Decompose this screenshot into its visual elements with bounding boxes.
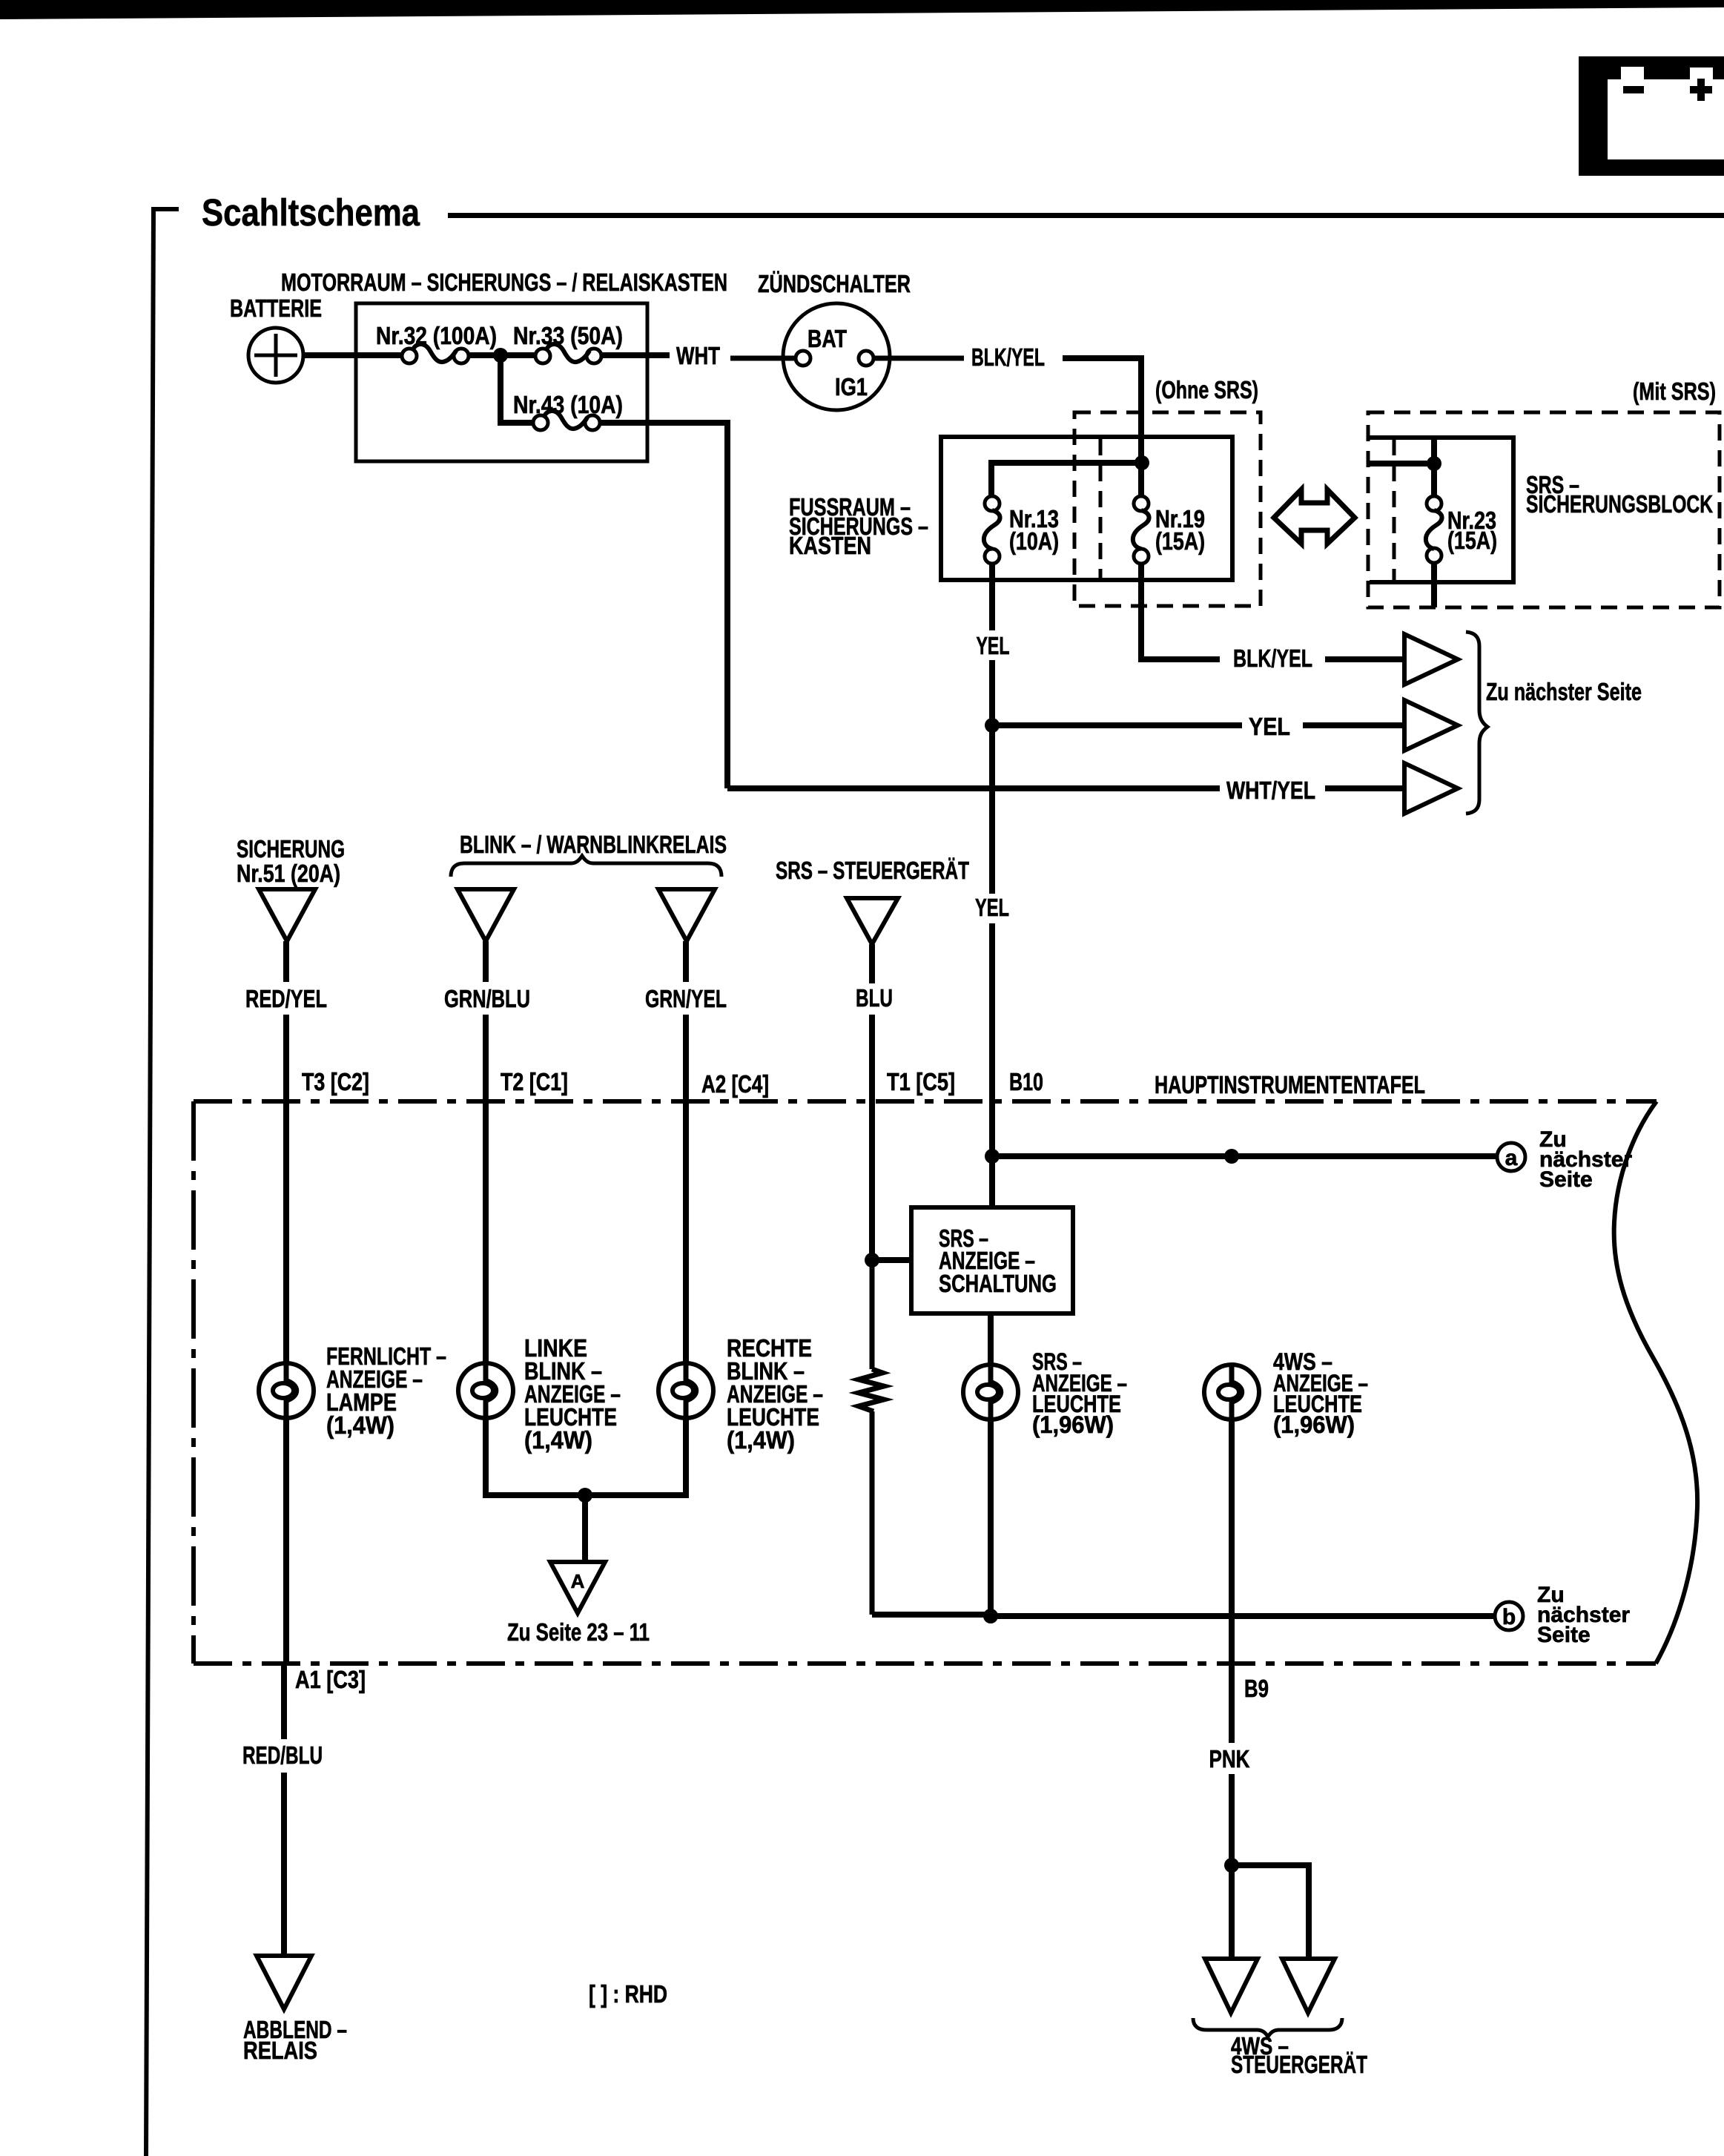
svg-text:STEUERGERÄT: STEUERGERÄT — [1231, 2051, 1367, 2078]
svg-text:BLINK – / WARNBLINKRELAIS: BLINK – / WARNBLINKRELAIS — [460, 831, 727, 858]
battery pictogram (top-right corner) — [1579, 56, 1724, 176]
svg-text:KASTEN: KASTEN — [789, 532, 871, 559]
fuse Nr.33 (50A) — [535, 344, 601, 363]
svg-text:BLK/YEL: BLK/YEL — [971, 343, 1045, 371]
wire RED/BLU down to relay — [281, 1773, 287, 1956]
wire to arrow 1 — [1325, 656, 1404, 662]
connector triangle 4WS left — [1205, 1959, 1258, 2013]
wire GRN/YEL down to panel — [683, 1015, 689, 1363]
brace under 4WS triangles — [1193, 2018, 1342, 2037]
svg-text:ZÜNDSCHALTER: ZÜNDSCHALTER — [758, 270, 911, 297]
arrow to next page (YEL) — [1404, 700, 1458, 751]
wire blink lamps join — [486, 1418, 686, 1495]
svg-text:YEL: YEL — [975, 894, 1009, 921]
svg-text:SRS – STEUERGERÄT: SRS – STEUERGERÄT — [776, 857, 969, 884]
svg-text:PNK: PNK — [1209, 1745, 1250, 1773]
svg-text:RED/YEL: RED/YEL — [245, 985, 327, 1012]
title rule line — [448, 213, 1724, 218]
label SRS-SICHERUNGSBLOCK — [1526, 471, 1713, 518]
arrow to next page (BLK/YEL) — [1404, 634, 1458, 685]
svg-text:BLU: BLU — [856, 984, 893, 1012]
svg-text:SICHERUNG: SICHERUNG — [237, 835, 345, 863]
label FUSSRAUM-SICHERUNGS-KASTEN — [789, 493, 928, 559]
equivalence double arrow — [1274, 489, 1355, 544]
wire fuse33 to WHT — [601, 352, 670, 358]
junction node 4WS split — [1224, 1858, 1239, 1873]
svg-text:BATTERIE: BATTERIE — [230, 294, 322, 322]
svg-text:MOTORRAUM – SICHERUNGS – / REL: MOTORRAUM – SICHERUNGS – / RELAISKASTEN — [281, 268, 727, 296]
lamp LINKE BLINK-ANZEIGE-LEUCHTE — [458, 1363, 513, 1418]
stem SRS control unit — [869, 944, 875, 983]
svg-text:(10A): (10A) — [1009, 527, 1059, 555]
fuse Nr.19 (15A) — [1133, 496, 1149, 564]
wire PNK down to junction — [1229, 1774, 1235, 1868]
svg-text:WHT: WHT — [676, 342, 720, 369]
SRS fuse block solid box — [1370, 438, 1513, 582]
junction node B10/(a) — [985, 1149, 1000, 1164]
wire fuse43 right and down (to WHT/YEL) — [600, 423, 727, 788]
svg-text:B9: B9 — [1244, 1675, 1269, 1702]
junction node blink join — [578, 1488, 592, 1503]
footwell fuse box rectangle — [941, 437, 1232, 580]
page border (left) — [146, 209, 179, 2156]
wire BLU down to SRS circuit — [869, 1015, 875, 1260]
wire BLK/YEL down to fuse Nr.19 — [1063, 358, 1141, 496]
lamp FERNLICHT-ANZEIGE-LAMPE — [259, 1363, 314, 1418]
svg-text:Zu nächster Seite: Zu nächster Seite — [1486, 678, 1642, 705]
wire to arrow 3 — [1325, 785, 1404, 791]
lamp RECHTE BLINK-ANZEIGE-LEUCHTE — [658, 1363, 713, 1418]
label Zu naechster Seite (b) — [1537, 1583, 1630, 1647]
junction node B9/(a) — [1224, 1149, 1239, 1164]
svg-text:SICHERUNGSBLOCK: SICHERUNGSBLOCK — [1526, 490, 1713, 518]
svg-text:(1,96W): (1,96W) — [1273, 1411, 1355, 1438]
battery symbol (circle with +) — [248, 328, 303, 383]
brace over blink relay triangles — [451, 856, 721, 877]
label Nr.19 (15A) — [1155, 505, 1205, 555]
junction node BLU/SRS circuit — [865, 1253, 879, 1267]
ignition switch circle U1 — [783, 303, 890, 410]
svg-text:B10: B10 — [1009, 1068, 1043, 1095]
connector triangle 4WS right — [1282, 1959, 1335, 2013]
wire 4WS lamp down through panel edge — [1229, 1420, 1235, 1743]
circle (a) — [1497, 1143, 1525, 1171]
wire GRN/BLU down to panel — [483, 1015, 489, 1363]
svg-text:(1,4W): (1,4W) — [326, 1411, 394, 1439]
wire WHT to ignition switch — [730, 356, 796, 361]
svg-text:GRN/YEL: GRN/YEL — [645, 985, 727, 1012]
wire into fuse Nr.23 — [1368, 438, 1434, 496]
svg-text:(1,4W): (1,4W) — [727, 1426, 795, 1454]
svg-text:BAT: BAT — [807, 325, 847, 352]
wire Nr.23 down to dashed box edge — [1431, 563, 1437, 607]
svg-text:Seite: Seite — [1539, 1167, 1593, 1192]
wire left branch to triangle — [1229, 1865, 1235, 1959]
label LINKE BLINK-ANZEIGE-LEUCHTE (1,4W) — [524, 1334, 621, 1454]
svg-text:Nr.33 (50A): Nr.33 (50A) — [513, 322, 623, 349]
svg-text:T3 [C2]: T3 [C2] — [302, 1068, 369, 1095]
svg-text:Zu Seite 23 – 11: Zu Seite 23 – 11 — [507, 1618, 650, 1646]
wire FERNLICHT lamp down to panel edge — [283, 1418, 289, 1664]
wire RED/YEL down to panel — [283, 1015, 289, 1363]
inner dashed divider (Ohne SRS) — [1099, 439, 1103, 579]
svg-text:A: A — [571, 1570, 585, 1592]
svg-text:(Mit SRS): (Mit SRS) — [1633, 378, 1716, 405]
wire Nr.13 down (YEL) — [989, 564, 995, 630]
label SICHERUNG Nr.51 (20A) — [237, 835, 345, 887]
instrument panel boundary top (dash-dot) — [194, 1099, 1657, 1104]
wire BLU to SRS circuit box — [872, 1257, 911, 1263]
label Nr.23 (15A) — [1447, 507, 1497, 554]
wire SRS circuit box down to SRS lamp — [988, 1313, 994, 1365]
junction node resistor/SRS lamp — [983, 1609, 998, 1623]
svg-text:(15A): (15A) — [1447, 527, 1497, 554]
label 4WS-STEUERGERAET — [1231, 2032, 1367, 2078]
wire right branch to triangle — [1232, 1865, 1309, 1959]
instrument panel boundary bottom (dash-dot) — [194, 1661, 1656, 1666]
inner dashed divider (Mit SRS) — [1393, 439, 1396, 581]
wire YEL down to instrument panel — [989, 923, 995, 1156]
triangle ABBLEND-RELAIS — [257, 1956, 311, 2009]
svg-text:SCHALTUNG: SCHALTUNG — [939, 1270, 1057, 1297]
svg-text:a: a — [1505, 1146, 1518, 1170]
svg-text:RED/BLU: RED/BLU — [242, 1741, 323, 1769]
wire row to (a) — [992, 1153, 1496, 1159]
svg-text:Nr.51 (20A): Nr.51 (20A) — [237, 860, 340, 887]
stem blink left — [483, 941, 489, 982]
dashed box (Mit SRS) — [1368, 412, 1720, 607]
svg-text:GRN/BLU: GRN/BLU — [444, 985, 530, 1012]
wire YEL junction to arrow 2 — [992, 722, 1242, 728]
svg-text:A1 [C3]: A1 [C3] — [295, 1666, 366, 1693]
fuse/relay box rectangle — [356, 303, 647, 461]
wire branch to fuse Nr.13 — [991, 463, 1142, 496]
wire SRS lamp down — [988, 1420, 994, 1616]
svg-text:HAUPTINSTRUMENTENTAFEL: HAUPTINSTRUMENTENTAFEL — [1155, 1071, 1425, 1098]
connector triangle SRS control unit — [847, 898, 898, 944]
fuse Nr.32 (100A) — [402, 344, 469, 363]
wire row to (b) — [991, 1613, 1495, 1619]
svg-text:Nr.32 (100A): Nr.32 (100A) — [376, 322, 497, 349]
svg-text:RELAIS: RELAIS — [243, 2037, 317, 2064]
resistor R1 — [859, 1260, 884, 1615]
circle (b) — [1495, 1602, 1523, 1630]
label Zu naechster Seite (a) — [1539, 1127, 1632, 1192]
svg-text:(1,96W): (1,96W) — [1032, 1411, 1114, 1438]
junction node (fuse box) — [493, 348, 508, 363]
svg-text:b: b — [1502, 1605, 1516, 1629]
stem fuse51 — [283, 941, 289, 982]
wire A1 down — [281, 1664, 287, 1739]
stem to triangle A — [582, 1495, 588, 1562]
junction node on YEL line — [985, 718, 1000, 733]
label FERNLICHT-ANZEIGE-LAMPE (1,4W) — [326, 1342, 446, 1439]
wire B10 down into SRS circuit box — [989, 1156, 995, 1225]
label 4WS-ANZEIGE-LEUCHTE (1,96W) — [1273, 1348, 1368, 1438]
svg-text:YEL: YEL — [977, 632, 1010, 659]
svg-text:Nr.43 (10A): Nr.43 (10A) — [513, 391, 623, 418]
wire battery to fuse box — [303, 352, 402, 358]
svg-text:[ ] : RHD: [ ] : RHD — [589, 1980, 667, 2008]
svg-text:Seite: Seite — [1537, 1623, 1591, 1647]
wire resistor bottom to junction — [872, 1612, 991, 1618]
wire WHT/YEL row — [727, 785, 1220, 791]
svg-text:(15A): (15A) — [1155, 527, 1205, 555]
wire IG1 to BLK/YEL — [873, 356, 964, 361]
wire junction down to fuse Nr.43 — [501, 355, 535, 423]
fuse Nr.43 (10A) — [533, 411, 600, 430]
svg-text:(Ohne SRS): (Ohne SRS) — [1155, 376, 1258, 403]
wire fuse32 to junction — [469, 352, 537, 358]
svg-text:IG1: IG1 — [835, 373, 868, 400]
instrument panel boundary left (dash-dot) — [191, 1101, 196, 1664]
instrument panel torn right edge — [1614, 1101, 1697, 1664]
triangle A (to page 23-11) — [550, 1562, 605, 1613]
lamp 4WS-ANZEIGE-LEUCHTE — [1204, 1365, 1259, 1420]
brace for arrows — [1466, 632, 1487, 814]
SRS indicator circuit box — [911, 1207, 1073, 1313]
svg-text:WHT/YEL: WHT/YEL — [1226, 777, 1315, 804]
junction node above Nr.19 — [1135, 455, 1149, 470]
connector triangle blink relay left — [458, 889, 514, 941]
stem blink right — [683, 941, 689, 982]
label RECHTE BLINK-ANZEIGE-LEUCHTE (1,4W) — [727, 1334, 823, 1454]
connector triangle fuse Nr.51 — [259, 889, 315, 941]
svg-text:T1 [C5]: T1 [C5] — [887, 1068, 955, 1095]
arrow to next page (WHT/YEL) — [1404, 763, 1458, 814]
svg-text:BLK/YEL: BLK/YEL — [1233, 645, 1312, 672]
label Nr.13 (10A) — [1009, 505, 1059, 555]
svg-text:A2 [C4]: A2 [C4] — [701, 1070, 769, 1098]
lamp SRS-ANZEIGE-LEUCHTE — [963, 1365, 1018, 1420]
dashed box (Ohne SRS) — [1074, 412, 1261, 606]
wire YEL down from label — [989, 660, 995, 894]
fuse Nr.23 (15A) — [1426, 496, 1442, 563]
svg-text:T2 [C1]: T2 [C1] — [501, 1068, 568, 1095]
label SRS-ANZEIGE-LEUCHTE (1,96W) — [1032, 1348, 1127, 1438]
junction node above Nr.23 — [1427, 456, 1441, 471]
label ABBLEND-RELAIS — [243, 2016, 347, 2064]
svg-text:YEL: YEL — [1249, 713, 1290, 740]
wire to arrow 2 — [1303, 722, 1404, 728]
scan artifact: top black bar — [0, 0, 1724, 19]
svg-text:Scahltschema: Scahltschema — [202, 191, 420, 234]
fuse Nr.13 (10A) — [984, 496, 1000, 564]
svg-text:(1,4W): (1,4W) — [524, 1426, 592, 1454]
wire Nr.19 down to BLK/YEL arrow row — [1141, 564, 1220, 659]
connector triangle blink relay right — [658, 889, 715, 941]
label SRS-ANZEIGE-SCHALTUNG — [939, 1224, 1057, 1297]
